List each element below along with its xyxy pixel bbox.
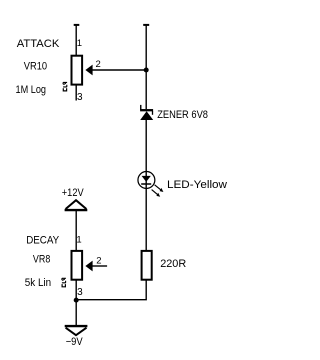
label 1M Log: [16, 84, 47, 96]
svg-text:LED-Yellow: LED-Yellow: [167, 179, 227, 191]
svg-text:3: 3: [77, 92, 83, 103]
wire zener to LED: [145, 120, 147, 172]
svg-text:ZENER 6V8: ZENER 6V8: [157, 109, 208, 121]
svg-text:DECAY: DECAY: [26, 234, 60, 246]
label 220R: [160, 258, 186, 270]
label VR10: [24, 61, 47, 73]
svg-text:VR10: VR10: [24, 61, 47, 73]
wire +12V to VR8 pin1: [75, 211, 77, 252]
label DECAY: [26, 234, 60, 246]
svg-text:220R: 220R: [160, 258, 186, 270]
junction node B (VR8 pin3 / resistor net): [74, 298, 79, 303]
zener diode ZENER 6V8: [140, 105, 153, 120]
svg-text:2: 2: [96, 256, 101, 267]
label ZENER 6V8: [157, 109, 208, 121]
wire VR10 pin3 stub: [75, 84, 77, 101]
wire LED to resistor: [145, 189, 147, 252]
wiper arrow VR10 pin2: [85, 65, 92, 76]
pin 3 rotated label (VR10): [63, 82, 67, 91]
svg-text:5k Lin: 5k Lin: [25, 277, 51, 289]
label LED-Yellow: [167, 179, 227, 191]
pin 3 label (VR10): [77, 92, 83, 103]
svg-text:ATTACK: ATTACK: [17, 38, 60, 50]
label 5k Lin: [25, 277, 51, 289]
terminal T-bar top of VR10: [74, 24, 80, 26]
svg-text:−9V: −9V: [66, 336, 84, 348]
pin 3 rotated label (VR8): [62, 278, 66, 287]
wire VR8 wiper stub: [92, 265, 107, 267]
svg-text:2: 2: [96, 59, 101, 70]
label +12V: [62, 187, 84, 199]
svg-text:+12V: +12V: [62, 187, 84, 199]
svg-text:3: 3: [77, 287, 83, 298]
LED LED-Yellow: [138, 172, 163, 197]
wire VR10 pin1 to terminal: [75, 25, 77, 56]
wire right net vertical top: [145, 25, 147, 109]
pin 2 label (VR8): [96, 256, 101, 267]
potentiometer VR10 body: [72, 56, 83, 85]
pin 3 label (VR8): [77, 287, 83, 298]
svg-text:1: 1: [77, 38, 82, 49]
pin 1 label (VR10): [77, 38, 82, 49]
power +12V symbol: [65, 200, 88, 210]
label ATTACK: [17, 38, 60, 50]
terminal T-bar top of right net: [143, 24, 149, 26]
power -9V symbol: [65, 326, 88, 335]
svg-text:1: 1: [76, 234, 81, 245]
potentiometer VR8 body: [72, 251, 83, 280]
label -9V: [66, 336, 84, 348]
pin 2 label (VR10): [96, 59, 101, 70]
wire resistor to corner and across to junction: [76, 280, 146, 299]
wiper arrow VR8 pin2: [85, 261, 92, 272]
wire VR10 wiper to node: [92, 69, 147, 71]
svg-text:1M Log: 1M Log: [16, 84, 47, 96]
svg-text:VR8: VR8: [33, 253, 50, 265]
junction node A (wiper / right net): [144, 68, 149, 73]
resistor 220R: [142, 251, 152, 280]
wire VR8 pin3 to -9V: [75, 280, 77, 325]
pin 1 label (VR8): [76, 234, 81, 245]
label VR8: [33, 253, 50, 265]
